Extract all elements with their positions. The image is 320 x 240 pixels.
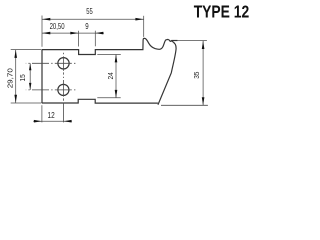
svg-text:24: 24 xyxy=(106,72,115,79)
svg-text:12: 12 xyxy=(48,111,56,120)
svg-text:15: 15 xyxy=(18,74,27,81)
svg-text:20,50: 20,50 xyxy=(50,22,65,31)
svg-text:55: 55 xyxy=(86,7,93,16)
svg-text:35: 35 xyxy=(192,72,201,79)
svg-text:9: 9 xyxy=(85,22,89,31)
svg-text:29,70: 29,70 xyxy=(5,68,14,88)
svg-text:TYPE 12: TYPE 12 xyxy=(194,2,250,22)
